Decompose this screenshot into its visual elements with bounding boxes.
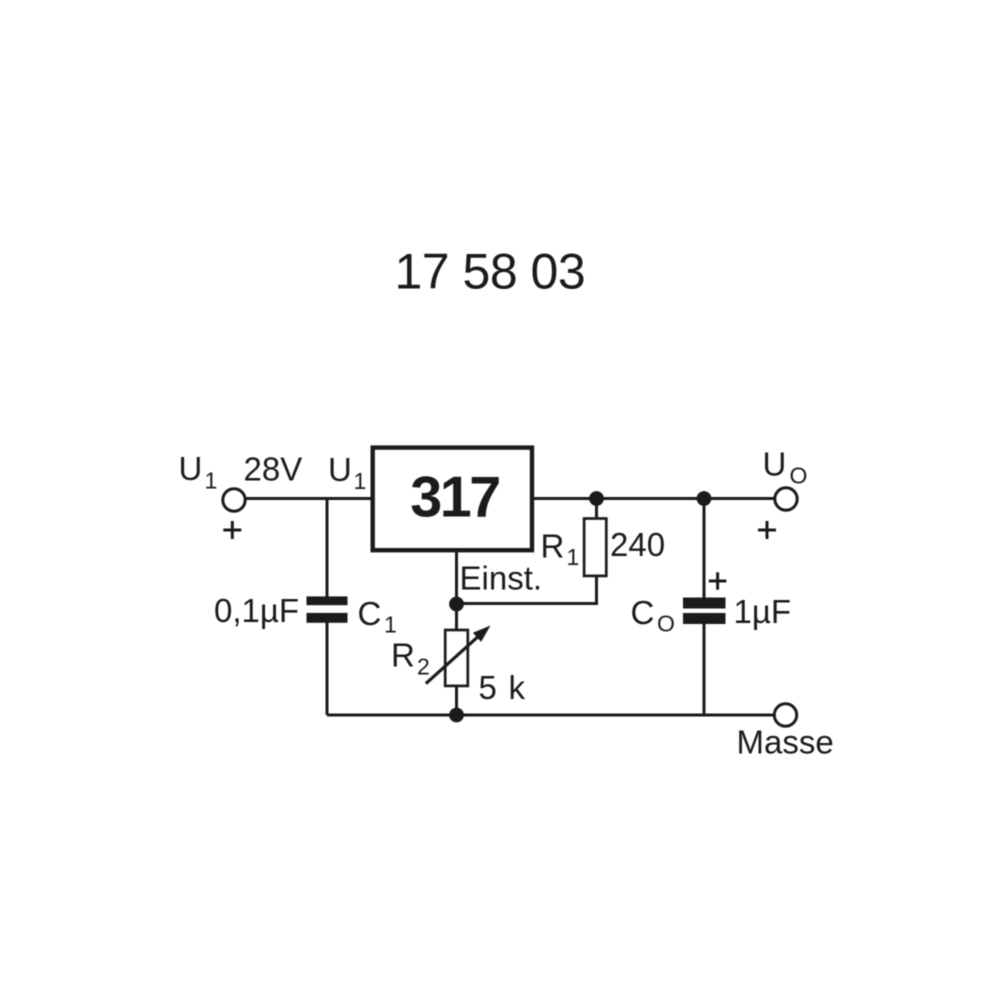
svg-text:k: k — [509, 669, 526, 706]
svg-text:U: U — [763, 446, 787, 483]
svg-text:R: R — [391, 637, 415, 674]
svg-text:1: 1 — [567, 544, 580, 570]
svg-text:R: R — [541, 528, 565, 565]
svg-text:240: 240 — [610, 526, 665, 563]
svg-text:1: 1 — [205, 468, 218, 494]
svg-text:28V: 28V — [244, 451, 303, 488]
svg-text:2: 2 — [417, 654, 430, 680]
svg-text:C: C — [358, 595, 382, 632]
svg-text:1µF: 1µF — [734, 593, 792, 630]
svg-text:5: 5 — [479, 669, 497, 706]
svg-text:C: C — [631, 594, 655, 631]
svg-text:U: U — [328, 451, 352, 488]
svg-text:Masse: Masse — [737, 724, 834, 761]
svg-text:317: 317 — [410, 466, 499, 530]
svg-text:17 58 03: 17 58 03 — [395, 244, 586, 300]
svg-text:0,1µF: 0,1µF — [214, 592, 299, 629]
svg-text:1: 1 — [354, 468, 367, 494]
svg-text:O: O — [657, 611, 675, 637]
svg-text:1: 1 — [384, 612, 397, 638]
svg-text:Einst.: Einst. — [460, 560, 543, 597]
svg-text:O: O — [790, 463, 808, 489]
svg-text:U: U — [179, 450, 203, 487]
